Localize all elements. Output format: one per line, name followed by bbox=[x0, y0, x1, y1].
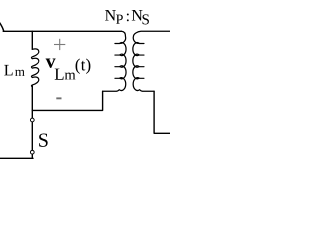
wire top-left entry tick bbox=[0, 23, 4, 32]
transformer primary winding Np bbox=[103, 31, 126, 91]
secondary winding turn tails bbox=[139, 43, 144, 45]
label Lm bbox=[4, 65, 12, 75]
wire bottom-left horizontal bbox=[0, 157, 33, 159]
primary winding turn tails bbox=[115, 43, 120, 45]
wire middle horizontal y=110 and vertical to primary bottom bbox=[32, 91, 102, 110]
transformer secondary winding Ns bbox=[133, 31, 170, 91]
label v_Lm(t) bbox=[46, 59, 56, 68]
label Np : Ns bbox=[105, 10, 116, 20]
polarity plus sign (gray) bbox=[54, 39, 65, 50]
switch S bottom terminal circle bbox=[30, 150, 34, 154]
wire Lm branch vertical below coil bbox=[31, 86, 33, 118]
switch S top terminal circle bbox=[30, 118, 34, 122]
wire secondary bottom vertical and bottom-right horizontal bbox=[154, 91, 170, 133]
wire switch middle segment bbox=[31, 122, 33, 150]
wire top horizontal (node between Lm and primary) bbox=[3, 30, 121, 32]
wire below switch bottom terminal bbox=[31, 155, 33, 159]
label S (switch) bbox=[39, 133, 48, 146]
inductor Lm coil bbox=[31, 49, 38, 87]
polarity minus sign (gray) bbox=[56, 97, 61, 99]
wire Lm branch vertical top bbox=[31, 31, 33, 49]
